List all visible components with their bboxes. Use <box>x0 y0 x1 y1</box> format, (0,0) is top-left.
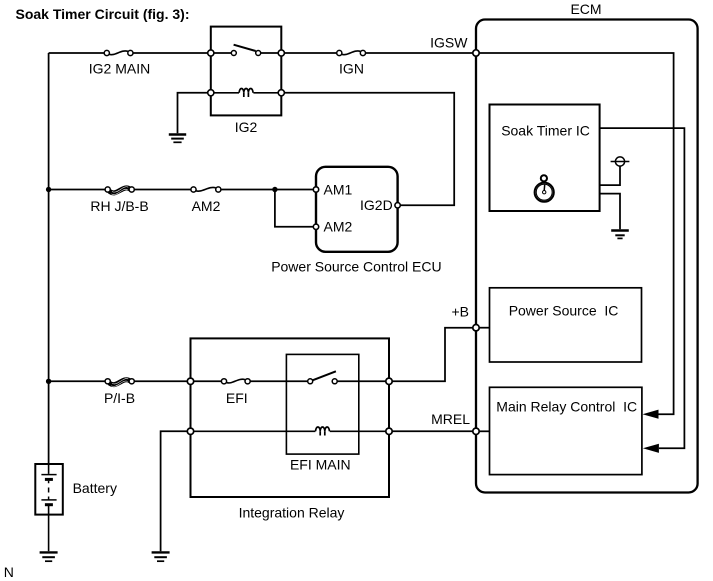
svg-text:P/I-B: P/I-B <box>104 390 135 406</box>
svg-text:N: N <box>4 564 14 580</box>
svg-text:EFI MAIN: EFI MAIN <box>290 457 351 473</box>
svg-text:Soak Timer Circuit (fig. 3):: Soak Timer Circuit (fig. 3): <box>16 6 190 22</box>
wire: EFI fuse to EFI MAIN switch <box>250 380 308 382</box>
arrowhead into Main Relay Control IC (lower) <box>643 444 659 453</box>
wire: main vertical bus from row1 down to battery <box>48 53 50 464</box>
svg-text:IGN: IGN <box>339 61 364 77</box>
ground (battery) <box>40 552 58 561</box>
node: Integration Relay right edge row3 <box>386 378 392 384</box>
wire: IGSW inside ECM to Main Relay Control IC arrow <box>479 53 674 414</box>
svg-text:AM1: AM1 <box>324 181 353 197</box>
wire: AM2 fuse to AM1 pin with branch to AM2 pin <box>221 190 313 227</box>
node +B on ECM edge <box>473 325 479 331</box>
relay box: EFI MAIN <box>286 354 358 454</box>
pin AM2 <box>313 224 318 229</box>
wire: IG2 relay to IGN fuse <box>285 52 338 54</box>
ground (IG2 relay) <box>169 135 186 143</box>
wire: EFI MAIN switch to Integration Relay right edge <box>337 380 389 382</box>
switch contact in IG2 (lever up-left) <box>231 45 260 56</box>
svg-text:Integration Relay: Integration Relay <box>239 505 345 521</box>
svg-text:IG2: IG2 <box>235 119 258 135</box>
wire: row4 ground branch (left of Integration Relay) <box>161 431 188 551</box>
ECM box <box>476 20 698 493</box>
junction: main vertical / row3 <box>46 379 51 384</box>
wire: left edge node to EFI fuse <box>194 380 222 382</box>
fuse IGN <box>337 50 366 55</box>
wire: Soak Timer IC to terminal circle <box>600 166 620 185</box>
svg-text:EFI: EFI <box>226 390 248 406</box>
IC box: Main Relay Control IC <box>490 387 642 474</box>
ground (inside ECM) <box>611 231 629 239</box>
wire: +B node into Power Source IC <box>479 327 490 329</box>
wire: row3 from main vertical to P/I-B fuse <box>49 380 106 382</box>
wire: IG2 switch row inside relay <box>211 52 281 54</box>
fuse EFI <box>221 379 250 384</box>
svg-text:ECM: ECM <box>570 1 601 17</box>
wire: IG2 coil right terminal to IG2D (right then down then left) <box>284 93 454 206</box>
fusible link RH J/B-B <box>105 187 134 195</box>
IC box: Power Source IC <box>490 288 642 362</box>
fuse AM2 <box>191 187 221 192</box>
switch contact in EFI MAIN (lever up-right) <box>308 371 338 384</box>
pin IG2D <box>395 203 400 208</box>
wire: P/I-B to Integration Relay left edge <box>134 380 190 382</box>
ground (Integration Relay coil) <box>152 552 170 561</box>
svg-text:AM2: AM2 <box>324 219 353 235</box>
wire: Soak Timer IC output to lower arrow <box>600 128 685 448</box>
svg-text:+B: +B <box>451 304 469 320</box>
svg-text:Main Relay Control IC: Main Relay Control IC <box>496 399 637 415</box>
wire: IG2 MAIN fuse to IG2 relay <box>133 52 211 54</box>
wire: MREL node into Main Relay Control IC <box>479 430 490 432</box>
svg-text:AM2: AM2 <box>192 198 221 214</box>
svg-text:RH J/B-B: RH J/B-B <box>90 198 148 214</box>
node: Integration Relay left edge row3 <box>187 378 193 384</box>
relay IG2 box <box>211 27 281 116</box>
pin AM1 <box>313 187 318 192</box>
terminal circles on IG2 box edges <box>208 50 285 96</box>
wire: row2 from main vertical to RH J/B-B fuse <box>49 189 106 191</box>
wire: RH J/B-B to AM2 fuse <box>134 189 191 191</box>
ECU box: Power Source Control ECU <box>316 167 398 252</box>
wire: IGN fuse to ECM IGSW node <box>366 52 477 54</box>
svg-text:IG2D: IG2D <box>360 197 393 213</box>
node: Integration Relay left edge row4 <box>187 428 193 434</box>
fusible link P/I-B <box>105 379 134 387</box>
stopwatch icon <box>535 175 554 202</box>
battery Battery <box>35 464 63 551</box>
svg-text:Power Source Control ECU: Power Source Control ECU <box>271 258 441 274</box>
arrowhead into Main Relay Control IC (upper) <box>643 410 659 419</box>
svg-text:IGSW: IGSW <box>430 35 468 51</box>
terminal circle symbol <box>611 157 630 166</box>
coil of EFI MAIN relay <box>194 427 390 436</box>
relay box: Integration Relay <box>191 338 390 497</box>
svg-text:Battery: Battery <box>73 480 117 496</box>
junction: AM1/AM2 branch <box>272 187 277 192</box>
wire: MREL from Integration Relay to ECM <box>392 430 476 432</box>
svg-text:MREL: MREL <box>431 411 470 427</box>
wire: Soak Timer IC to internal ground <box>600 194 620 230</box>
coil of IG2 relay <box>211 88 281 97</box>
junction: main vertical / row2 <box>46 187 51 192</box>
wire: IG2 coil left terminal to ground stem <box>178 93 208 134</box>
fuse IG2 MAIN <box>104 50 133 55</box>
node MREL on ECM edge <box>473 428 479 434</box>
wire: top-left horizontal row1 from main vertical to IG2 MAIN fuse <box>49 52 105 54</box>
node: Integration Relay right edge row4 <box>386 428 392 434</box>
svg-text:IG2 MAIN: IG2 MAIN <box>89 61 150 77</box>
node IGSW on ECM edge <box>473 50 479 56</box>
svg-text:Soak Timer IC: Soak Timer IC <box>501 122 590 138</box>
svg-text:Power Source IC: Power Source IC <box>509 303 619 319</box>
IC box: Soak Timer IC <box>490 105 600 212</box>
wire: +B path from Integration Relay to ECM <box>392 328 476 382</box>
